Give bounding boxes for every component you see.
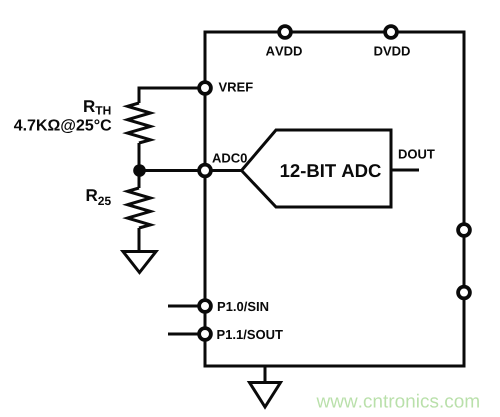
node junction RTH/R25/ADC0 [133, 164, 146, 177]
watermark www.cntronics.com [316, 394, 478, 408]
pin right upper [458, 224, 470, 236]
label DVDD [374, 47, 409, 56]
label RTH [84, 100, 110, 114]
pin P1.0/SIN [199, 300, 211, 312]
wire ADC0 pin to ADC block [205, 169, 242, 172]
wire P1.0/SIN stub [168, 305, 198, 308]
wire R25 bottom to ground [138, 228, 141, 250]
pin P1.1/SOUT [199, 328, 211, 340]
wire VREF pin to RTH top [139, 88, 205, 103]
label 12-BIT ADC [281, 164, 381, 177]
pin AVDD [279, 26, 291, 38]
label ADC0 [212, 153, 247, 162]
resistor R25 [128, 188, 151, 228]
wire P1.1/SOUT stub [168, 333, 198, 336]
ground (left, below R25) [123, 252, 156, 273]
wire node to ADC0 pin [139, 169, 205, 172]
label AVDD [266, 47, 302, 56]
resistor RTH [128, 103, 151, 143]
label VREF [219, 83, 253, 92]
label P1.0/SIN [218, 302, 268, 312]
pin DVDD [385, 26, 397, 38]
wire DOUT stub [391, 169, 419, 172]
pin VREF [199, 82, 211, 94]
value label 4.7KΩ@25°C [14, 119, 111, 133]
label R25 [87, 189, 111, 205]
IC U1 outline [205, 32, 464, 366]
pin ADC0 [199, 165, 211, 177]
label P1.1/SOUT [217, 330, 282, 340]
wire bottom ground stub [264, 366, 267, 382]
pin right lower [458, 287, 470, 299]
wire RTH bottom to node [138, 143, 141, 171]
ground (bottom of IC) [250, 383, 281, 408]
ADC block 12-BIT ADC [242, 130, 392, 207]
label DOUT [399, 149, 435, 158]
wire node to R25 top [138, 171, 141, 189]
